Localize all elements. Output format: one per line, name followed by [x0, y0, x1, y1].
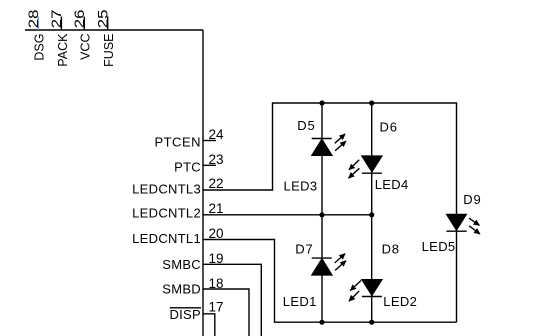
svg-text:18: 18 — [209, 276, 224, 291]
svg-text:SMBD: SMBD — [162, 282, 201, 297]
svg-text:DISP: DISP — [169, 307, 201, 322]
svg-text:D5: D5 — [297, 118, 315, 133]
svg-text:28: 28 — [26, 10, 41, 29]
svg-text:PACK: PACK — [56, 33, 70, 67]
svg-text:D7: D7 — [295, 242, 313, 257]
svg-text:22: 22 — [209, 176, 224, 191]
svg-text:FUSE: FUSE — [102, 34, 116, 67]
svg-text:LEDCNTL1: LEDCNTL1 — [132, 231, 201, 246]
svg-text:17: 17 — [209, 300, 224, 315]
svg-text:VCC: VCC — [79, 34, 93, 60]
svg-text:LEDCNTL3: LEDCNTL3 — [132, 182, 201, 197]
svg-text:D9: D9 — [463, 192, 481, 207]
svg-text:D6: D6 — [380, 120, 398, 135]
svg-text:27: 27 — [50, 10, 65, 29]
svg-text:D8: D8 — [382, 242, 400, 257]
svg-text:PTCEN: PTCEN — [154, 135, 201, 150]
svg-text:LEDCNTL2: LEDCNTL2 — [132, 206, 201, 221]
svg-text:25: 25 — [96, 10, 111, 29]
svg-text:23: 23 — [209, 152, 224, 167]
svg-text:LED3: LED3 — [284, 179, 318, 194]
svg-text:20: 20 — [209, 226, 224, 241]
svg-text:LED2: LED2 — [383, 294, 417, 309]
svg-text:LED5: LED5 — [422, 239, 456, 254]
svg-text:DSG: DSG — [33, 34, 47, 61]
svg-text:19: 19 — [209, 251, 224, 266]
svg-text:PTC: PTC — [174, 159, 201, 174]
svg-text:LED4: LED4 — [375, 177, 409, 192]
svg-text:24: 24 — [209, 127, 225, 142]
svg-text:21: 21 — [209, 201, 224, 216]
svg-text:LED1: LED1 — [283, 294, 317, 309]
svg-text:SMBC: SMBC — [162, 257, 201, 272]
svg-text:26: 26 — [72, 10, 87, 29]
